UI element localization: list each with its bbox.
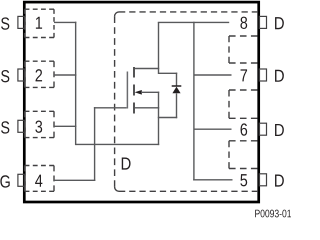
MOSFET channel segment middle [133, 85, 135, 96]
MOSFET channel segment top [133, 67, 135, 78]
source wire vertical to MOSFET [158, 92, 160, 146]
pin 2 lead [18, 69, 25, 81]
S label pin 2 [1, 70, 9, 82]
package outline [24, 2, 258, 202]
wire pin 3 to source bus [54, 125, 76, 127]
wire pin 2 to source bus [54, 74, 76, 76]
drain pad outline left [114, 16, 116, 187]
S label pin 3 [1, 121, 9, 133]
pin 3 number [35, 120, 42, 132]
pin 4 pad box [25, 166, 54, 192]
gate wire vertical [94, 107, 96, 181]
body wire [141, 91, 159, 93]
pin 4 number [35, 175, 42, 187]
drain pad outline bottom [119, 190, 258, 192]
D label pin 7 [275, 70, 284, 82]
MOSFET drain stub [135, 68, 159, 70]
pin 5 lead [259, 174, 266, 186]
gate wire to gate bar [94, 107, 127, 109]
figure code P0093-01 [255, 210, 291, 218]
diode cathode bar [172, 85, 182, 87]
drain pad corner top-left [115, 12, 119, 16]
diode cathode wire [176, 73, 178, 87]
wire pin 4 gate horizontal [54, 179, 95, 181]
pin 8 lead [259, 16, 266, 28]
drain pad notch between pins 7-6 [229, 90, 258, 118]
wire pin 7 drain [194, 74, 232, 76]
S label pin 1 [1, 17, 9, 29]
drain pad label D [122, 158, 131, 170]
source wire horizontal [76, 143, 160, 145]
pin 2 pad box [25, 61, 54, 87]
diode triangle [172, 87, 180, 94]
pin 7 lead [259, 69, 266, 81]
drain vertical to pin 8 wire [158, 22, 160, 74]
pin 6 lead [259, 123, 266, 135]
pin 4 lead [18, 174, 25, 186]
pin 3 lead [18, 120, 25, 132]
wire pin 6 drain [194, 128, 232, 130]
drain pad corner bottom-left [115, 187, 119, 191]
MOSFET channel segment bottom [133, 103, 135, 114]
pin 2 number [36, 69, 43, 81]
D label pin 8 [275, 17, 284, 29]
diode anode jog to source [158, 117, 177, 119]
D label pin 6 [275, 124, 284, 136]
pin 8 number [240, 17, 247, 29]
pin 1 lead [18, 16, 25, 28]
MOSFET source stub [135, 107, 159, 109]
pin 1 pad box [25, 9, 54, 37]
drain bus vertical [193, 22, 195, 181]
pin 3 pad box [25, 111, 54, 137]
D label pin 5 [275, 175, 284, 187]
drain jog to body diode [159, 72, 178, 74]
wire pin 1 to source bus [54, 21, 76, 23]
pin 1 number [36, 17, 42, 29]
pin 7 number [241, 69, 248, 81]
drain pad outline top [119, 11, 258, 13]
body arrow [135, 90, 142, 95]
drain pad notch between pins 8-7 [229, 36, 258, 63]
MOSFET gate bar [126, 72, 128, 109]
drain pad notch between pins 6-5 [229, 141, 258, 169]
source bus vertical [75, 22, 77, 145]
G label pin 4 [0, 175, 9, 187]
wire pin 8 drain [158, 21, 229, 23]
pin 5 number [240, 174, 247, 186]
diode anode wire [176, 93, 178, 118]
pin 6 number [241, 123, 248, 135]
wire pin 5 drain [193, 179, 232, 181]
